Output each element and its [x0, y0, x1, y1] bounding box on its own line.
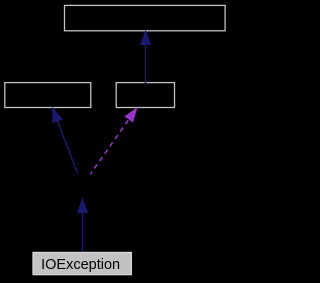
svg-text:IOException: IOException: [41, 257, 120, 273]
node: IOException box (current node, gray filled): [33, 252, 131, 274]
edge: inheritance arrow from hidden middle node up-left to middle-left box (solid navy): [53, 108, 78, 173]
node: middle-right parent-class box (outlined, empty): [116, 83, 174, 108]
node: top base-class box (outlined, empty): [65, 5, 226, 30]
edge: inheritance arrow from IOException box up to hidden middle node (solid navy): [78, 199, 88, 252]
edge: template-relation arrow from hidden middle node up-right to middle-right box (dashed purple): [90, 109, 136, 175]
node: middle-left parent-class box (outlined, empty): [5, 83, 91, 108]
edge: inheritance arrow from middle-right box up to top box (solid navy): [141, 31, 151, 83]
